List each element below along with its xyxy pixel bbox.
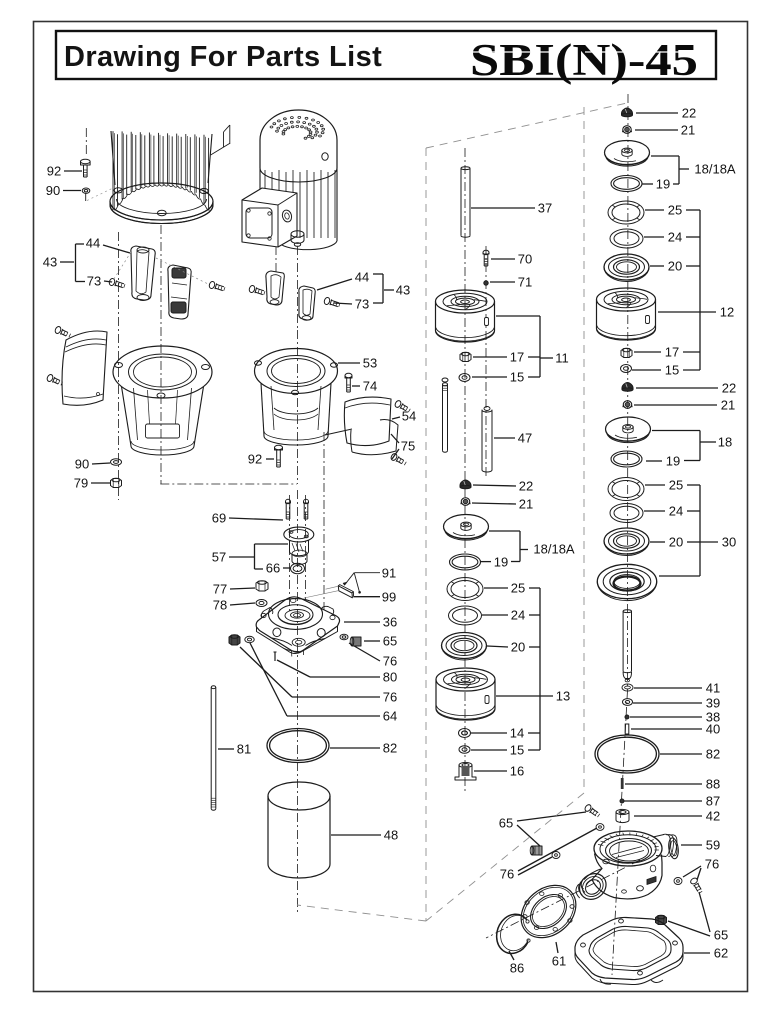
svg-text:36: 36 — [383, 615, 397, 630]
svg-text:65: 65 — [499, 816, 513, 831]
svg-text:73: 73 — [87, 274, 101, 289]
svg-text:53: 53 — [363, 356, 377, 371]
svg-text:62: 62 — [714, 946, 728, 961]
svg-text:76: 76 — [383, 654, 397, 669]
svg-text:21: 21 — [519, 497, 533, 512]
svg-text:70: 70 — [518, 252, 532, 267]
svg-text:24: 24 — [669, 504, 683, 519]
svg-text:21: 21 — [681, 123, 695, 138]
svg-text:24: 24 — [668, 230, 682, 245]
svg-text:99: 99 — [382, 590, 396, 605]
svg-text:76: 76 — [705, 857, 719, 872]
svg-text:43: 43 — [396, 283, 410, 298]
svg-text:90: 90 — [46, 183, 60, 198]
svg-text:22: 22 — [519, 479, 533, 494]
svg-text:77: 77 — [213, 582, 227, 597]
svg-text:30: 30 — [722, 535, 736, 550]
svg-text:69: 69 — [212, 511, 226, 526]
svg-text:21: 21 — [721, 398, 735, 413]
svg-text:76: 76 — [383, 690, 397, 705]
svg-text:82: 82 — [706, 747, 720, 762]
svg-text:11: 11 — [555, 351, 569, 366]
svg-text:76: 76 — [500, 867, 514, 882]
svg-text:40: 40 — [706, 722, 720, 737]
svg-text:65: 65 — [383, 634, 397, 649]
svg-text:92: 92 — [47, 164, 61, 179]
svg-text:39: 39 — [706, 696, 720, 711]
svg-text:20: 20 — [668, 259, 682, 274]
svg-text:19: 19 — [666, 454, 680, 469]
svg-text:25: 25 — [511, 581, 525, 596]
svg-text:65: 65 — [714, 928, 728, 943]
svg-text:61: 61 — [552, 954, 566, 969]
svg-text:79: 79 — [74, 476, 88, 491]
svg-text:88: 88 — [706, 777, 720, 792]
svg-text:73: 73 — [355, 297, 369, 312]
svg-text:14: 14 — [510, 726, 524, 741]
svg-text:13: 13 — [556, 689, 570, 704]
svg-text:43: 43 — [43, 255, 57, 270]
svg-text:22: 22 — [682, 106, 696, 121]
svg-text:18/18A: 18/18A — [533, 542, 575, 557]
svg-text:48: 48 — [384, 828, 398, 843]
svg-text:SBI(N)-45: SBI(N)-45 — [470, 35, 698, 85]
svg-text:12: 12 — [720, 305, 734, 320]
svg-text:71: 71 — [518, 275, 532, 290]
svg-text:18/18A: 18/18A — [694, 162, 736, 177]
svg-text:57: 57 — [212, 550, 226, 565]
svg-text:18: 18 — [718, 435, 732, 450]
svg-text:66: 66 — [266, 561, 280, 576]
svg-text:24: 24 — [511, 608, 525, 623]
svg-text:59: 59 — [706, 838, 720, 853]
svg-text:15: 15 — [665, 363, 679, 378]
svg-text:22: 22 — [722, 381, 736, 396]
svg-text:41: 41 — [706, 681, 720, 696]
svg-text:19: 19 — [656, 177, 670, 192]
svg-text:44: 44 — [355, 270, 369, 285]
svg-text:17: 17 — [510, 350, 524, 365]
svg-text:47: 47 — [518, 431, 532, 446]
svg-text:80: 80 — [383, 670, 397, 685]
svg-text:92: 92 — [248, 452, 262, 467]
svg-text:91: 91 — [382, 566, 396, 581]
svg-text:44: 44 — [86, 236, 100, 251]
svg-text:15: 15 — [510, 370, 524, 385]
svg-text:82: 82 — [383, 741, 397, 756]
svg-text:78: 78 — [213, 598, 227, 613]
svg-text:81: 81 — [237, 742, 251, 757]
svg-text:20: 20 — [511, 640, 525, 655]
svg-text:86: 86 — [510, 961, 524, 976]
svg-text:16: 16 — [510, 764, 524, 779]
svg-text:17: 17 — [665, 345, 679, 360]
svg-text:25: 25 — [668, 203, 682, 218]
svg-text:90: 90 — [75, 457, 89, 472]
svg-text:42: 42 — [706, 809, 720, 824]
svg-text:19: 19 — [494, 555, 508, 570]
svg-text:15: 15 — [510, 743, 524, 758]
svg-text:25: 25 — [669, 478, 683, 493]
svg-text:20: 20 — [669, 535, 683, 550]
svg-text:75: 75 — [401, 439, 415, 454]
svg-text:74: 74 — [363, 379, 377, 394]
svg-text:64: 64 — [383, 709, 397, 724]
svg-text:37: 37 — [538, 201, 552, 216]
svg-text:87: 87 — [706, 794, 720, 809]
svg-text:Drawing For Parts List: Drawing For Parts List — [64, 41, 382, 73]
